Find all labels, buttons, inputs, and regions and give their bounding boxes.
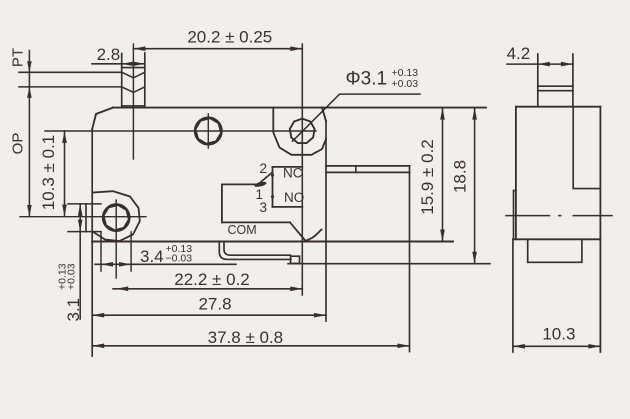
NC fixed contact xyxy=(271,172,274,179)
lower-left hole vertical centerline xyxy=(115,200,117,278)
svg-text:PT: PT xyxy=(10,48,27,67)
hole H2 long vertical extension line (20.2 / 22.2 dims) xyxy=(301,44,303,295)
18.8 dimension line xyxy=(474,108,476,264)
lower-left hole inner polygon xyxy=(104,205,129,230)
bottom block lower edge (extended right for 18.8 dim) xyxy=(288,263,490,265)
holes horizontal centerline xyxy=(45,130,316,132)
svg-text:Φ3.1: Φ3.1 xyxy=(346,69,388,90)
COM shelf xyxy=(222,221,290,223)
NO fixed contact xyxy=(271,193,274,200)
operating position line PT bottom xyxy=(19,86,122,88)
COM feed horizontal xyxy=(222,183,256,185)
lower hole horizontal centerline xyxy=(20,216,146,218)
left pin top edge xyxy=(68,203,101,205)
svg-text:2.8: 2.8 xyxy=(97,45,121,64)
10.3+-0.1 dimension line xyxy=(64,131,66,217)
svg-text:22.2 ± 0.2: 22.2 ± 0.2 xyxy=(174,270,250,289)
left pin tip xyxy=(85,204,87,232)
side view inner step xyxy=(573,107,600,189)
body left edge (extended down for 27.8/37.8 dims) xyxy=(91,129,93,356)
svg-text:3.1: 3.1 xyxy=(64,298,83,322)
2.8 dimension line xyxy=(92,63,145,65)
side view right edge (extended for 10.3 dim) xyxy=(599,107,601,352)
4.2 dimension line xyxy=(507,63,573,65)
leader line for hole diameter xyxy=(293,94,421,141)
svg-text:NC: NC xyxy=(283,166,303,181)
hole H1 circle xyxy=(195,118,222,145)
side view bottom line xyxy=(513,238,601,240)
COM feed vertical xyxy=(221,184,223,222)
svg-text:−0.03: −0.03 xyxy=(166,253,193,265)
free position line PT top xyxy=(19,71,122,73)
37.8 dimension line xyxy=(92,345,409,347)
plunger hatch chevron 1 xyxy=(122,72,145,78)
bottom hook outer strip xyxy=(219,242,291,260)
body top-right chamfer xyxy=(322,108,326,121)
side view left extension (10.3 dim) xyxy=(512,239,514,352)
side view centerline dashes xyxy=(506,215,612,217)
NC blade top edge xyxy=(326,165,410,167)
side view plunger left edge xyxy=(537,54,539,107)
svg-text:3.4: 3.4 xyxy=(140,247,164,266)
PT / OP shared dimension line xyxy=(28,51,30,217)
side view plunger right edge xyxy=(572,54,574,107)
plunger seat line xyxy=(122,105,145,107)
left pin bottom edge xyxy=(68,231,101,233)
hole H1 vertical centerline xyxy=(207,114,209,148)
terminal block right edge (extended down for 37.8 dim) xyxy=(409,166,411,352)
side view left edge xyxy=(515,107,517,240)
plunger hatch chevron 2 xyxy=(122,87,145,93)
svg-text:OP: OP xyxy=(10,133,27,155)
terminal circuit: line 2-NC xyxy=(273,166,303,168)
hole H1 inner polygon xyxy=(196,118,222,144)
svg-text:+0.03: +0.03 xyxy=(392,78,419,90)
plunger centerline xyxy=(132,44,134,159)
label 3.1 with tolerance (rotated) xyxy=(57,263,84,321)
svg-text:10.3: 10.3 xyxy=(542,325,575,344)
svg-text:3: 3 xyxy=(259,200,267,215)
body top-left chamfer xyxy=(92,108,113,129)
COM slant down xyxy=(290,222,306,240)
terminal circuit: bracket vertical xyxy=(272,167,274,207)
svg-text:COM: COM xyxy=(228,223,257,237)
svg-text:NO: NO xyxy=(284,190,304,205)
side view left step xyxy=(514,191,516,240)
side view body top edge xyxy=(516,106,601,108)
svg-text:2: 2 xyxy=(259,161,267,176)
svg-text:27.8: 27.8 xyxy=(198,295,231,314)
svg-text:20.2 ± 0.25: 20.2 ± 0.25 xyxy=(187,27,272,46)
terminal circuit: line 3-NO xyxy=(273,206,303,208)
15.9 dimension line xyxy=(442,108,444,242)
svg-text:18.8: 18.8 xyxy=(451,160,470,193)
20.2 dimension line xyxy=(133,48,302,50)
main view body top edge (extended right for 15.9/18.8 dims) xyxy=(113,107,486,109)
svg-text:10.3 ± 0.1: 10.3 ± 0.1 xyxy=(39,135,58,211)
bottom hook inner strip xyxy=(224,242,291,256)
body bottom edge (extended right for 15.9 dim) xyxy=(92,241,453,243)
slot edge extension lines for 3.4 dim xyxy=(101,232,131,271)
OP bottom arrow xyxy=(27,205,32,217)
boss around hole H2 xyxy=(273,108,326,155)
10.3 dimension line xyxy=(513,345,601,347)
moving contact arm xyxy=(256,172,273,186)
blade shoulder tick xyxy=(355,166,357,173)
svg-text:15.9 ± 0.2: 15.9 ± 0.2 xyxy=(418,139,437,215)
side view plunger band xyxy=(538,86,573,91)
body right edge (extended down for 27.8 dim) xyxy=(325,121,327,321)
27.8 dimension line xyxy=(92,314,326,316)
hook end box xyxy=(291,256,300,263)
plunger top edge xyxy=(122,67,145,69)
3.4 dimension line xyxy=(95,263,236,265)
svg-text:4.2: 4.2 xyxy=(507,44,531,63)
base curve up right xyxy=(306,230,322,241)
22.2 dimension line xyxy=(113,288,302,290)
3.1 dimension line vertical xyxy=(79,204,81,319)
2.8 dimension arrows xyxy=(122,62,145,67)
svg-text:37.8 ± 0.8: 37.8 ± 0.8 xyxy=(208,328,284,347)
boss around lower-left hole xyxy=(93,191,140,241)
side view terminal block xyxy=(528,239,582,262)
PT arrows (outside pair) xyxy=(27,61,32,98)
hole H2 polygon xyxy=(290,119,315,144)
plunger left edge xyxy=(121,54,123,108)
NC blade bottom edge xyxy=(326,171,410,173)
common pivot blob xyxy=(254,181,267,188)
svg-text:+0.03: +0.03 xyxy=(66,263,78,290)
lower-left slot hole circle xyxy=(103,204,130,231)
plunger right edge xyxy=(144,53,146,108)
